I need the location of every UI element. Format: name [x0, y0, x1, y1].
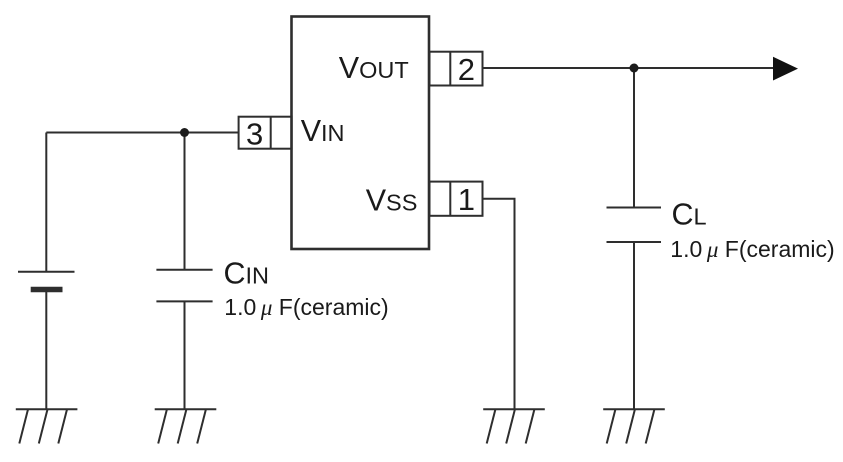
svg-text:1.0 μ F(ceramic): 1.0 μ F(ceramic): [670, 236, 834, 262]
svg-text:VSS: VSS: [366, 183, 418, 217]
svg-text:2: 2: [458, 52, 475, 87]
svg-text:VIN: VIN: [301, 114, 345, 148]
svg-text:VOUT: VOUT: [339, 51, 409, 85]
svg-text:CL: CL: [672, 198, 707, 232]
svg-text:1.0 μ F(ceramic): 1.0 μ F(ceramic): [224, 294, 388, 320]
svg-text:CIN: CIN: [224, 256, 270, 290]
svg-text:1: 1: [458, 182, 475, 217]
svg-text:3: 3: [246, 117, 263, 152]
